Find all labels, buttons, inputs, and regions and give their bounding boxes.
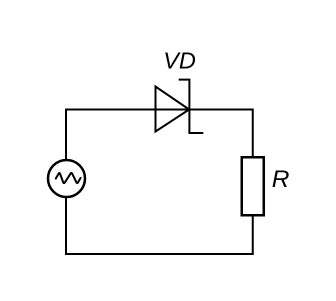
wire left vertical upper [65,109,67,162]
AC source G1 circle [48,160,85,197]
wire top horizontal [66,109,253,111]
wire left vertical lower [65,196,67,255]
resistor R body [242,157,264,215]
wire right vertical upper [252,109,254,159]
diode VD triangle [156,87,190,132]
wire bottom horizontal [66,253,253,255]
svg-text:VD: VD [163,48,196,74]
diode VD cathode bar (zener) [179,80,204,133]
wire right vertical lower [252,214,254,255]
svg-text:R: R [272,166,290,193]
AC source sine wave [56,173,81,183]
